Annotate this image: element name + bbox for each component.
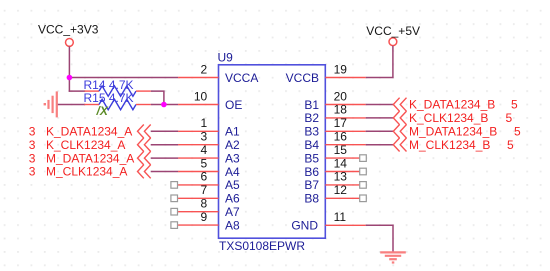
svg-text:B3: B3 (304, 125, 319, 139)
pin 6 (A5) (178, 170, 240, 193)
wire ground to R15 (58, 104, 85, 106)
svg-text:3: 3 (201, 130, 208, 144)
wire K_CLK1234_B to pin (366, 117, 394, 119)
wire from VCC_+3V3 down to R14 corner (68, 46, 70, 91)
svg-text:A8: A8 (225, 218, 240, 232)
svg-text:19: 19 (334, 62, 348, 76)
svg-text:K_DATA1234_A: K_DATA1234_A (46, 125, 132, 139)
wire K_CLK1234_A to pin (151, 144, 178, 146)
svg-text:B8: B8 (304, 192, 319, 206)
net label M_DATA1234_A (46, 151, 134, 165)
svg-text:A1: A1 (225, 125, 240, 139)
svg-text:VCCA: VCCA (225, 71, 258, 85)
svg-text:M_CLK1234_B: M_CLK1234_B (409, 138, 490, 152)
svg-text:R14 4.7K: R14 4.7K (84, 78, 134, 92)
pin 12 (B8) (304, 183, 365, 206)
value label TXS0108EPWR (219, 239, 305, 253)
svg-text:5: 5 (506, 111, 513, 125)
net label M_CLK1234_B (409, 138, 490, 152)
svg-text:3: 3 (29, 138, 36, 152)
svg-text:6: 6 (201, 170, 208, 184)
wire K_DATA1234_B to pin (366, 104, 394, 106)
ground (bottom, pin 11) (380, 252, 406, 263)
svg-text:B5: B5 (304, 151, 319, 165)
pin 16 (B4) (304, 130, 365, 153)
pin 3 (A2) (178, 130, 240, 153)
svg-text:M_CLK1234_A: M_CLK1234_A (46, 165, 127, 179)
svg-text:OE: OE (225, 98, 242, 112)
svg-text:A6: A6 (225, 192, 240, 206)
off-page connector M_DATA1234_B (393, 125, 406, 139)
wire M_DATA1234_A to pin (151, 157, 178, 159)
svg-text:2: 2 (201, 62, 208, 76)
svg-text:5: 5 (514, 125, 521, 139)
net label M_DATA1234_B (409, 125, 497, 139)
pin 2 (VCCA) (178, 62, 258, 85)
svg-text:11: 11 (334, 210, 347, 224)
no-connect A8 (171, 222, 178, 229)
svg-text:VCC_+5V: VCC_+5V (366, 24, 420, 38)
off-page connector K_DATA1234_B (393, 98, 406, 112)
ground (left, on R15) (44, 91, 57, 117)
pin 17 (B3) (304, 116, 365, 139)
resistor R14 (84, 86, 150, 96)
page ref 5 for M_DATA1234_B (514, 125, 521, 139)
no-connect A5 (171, 182, 178, 189)
svg-text:17: 17 (334, 116, 348, 130)
wire K_DATA1234_A to pin (151, 130, 178, 132)
off-page connector K_DATA1234_A (138, 125, 151, 139)
no-connect B7 (360, 182, 367, 189)
svg-text:GND: GND (291, 219, 318, 233)
off-page connector M_DATA1234_A (138, 151, 151, 165)
page ref 5 for K_CLK1234_B (506, 111, 513, 125)
svg-text:14: 14 (334, 156, 348, 170)
pin 7 (A6) (178, 183, 240, 206)
svg-text:5: 5 (201, 156, 208, 170)
off-page connector K_CLK1234_B (393, 111, 406, 125)
off-page connector K_CLK1234_A (138, 138, 151, 152)
svg-text:B7: B7 (304, 178, 319, 192)
svg-text:B2: B2 (304, 111, 319, 125)
off-page connector M_CLK1234_A (138, 165, 151, 179)
svg-text:R15 4.7K: R15 4.7K (84, 91, 134, 105)
pin 4 (A3) (178, 143, 240, 166)
svg-text:A5: A5 (225, 178, 240, 192)
svg-text:3: 3 (29, 165, 36, 179)
svg-text:VCCB: VCCB (286, 71, 319, 85)
svg-text:4: 4 (201, 143, 208, 157)
svg-text:B6: B6 (304, 165, 319, 179)
svg-text:5: 5 (511, 98, 518, 112)
svg-text:8: 8 (201, 197, 208, 211)
pin 8 (A7) (178, 197, 240, 220)
no-connect B8 (360, 195, 367, 202)
net label M_CLK1234_A (46, 165, 127, 179)
IC U9 TXS0108EPWR body (219, 65, 326, 238)
svg-text:13: 13 (334, 170, 348, 184)
svg-text:/X: /X (96, 104, 109, 118)
junction on VCC_+3V3 net (67, 75, 73, 81)
junction on OE net (161, 102, 167, 108)
svg-text:K_CLK1234_B: K_CLK1234_B (409, 111, 488, 125)
wire M_DATA1234_B to pin (366, 130, 394, 132)
svg-text:K_DATA1234_B: K_DATA1234_B (409, 98, 495, 112)
wire VCC to pin 2 VCCA (69, 77, 178, 79)
svg-text:7: 7 (201, 183, 208, 197)
net label K_CLK1234_A (46, 138, 125, 152)
svg-text:K_CLK1234_A: K_CLK1234_A (46, 138, 125, 152)
wire pin 11 GND down (366, 225, 393, 251)
svg-text:9: 9 (201, 210, 208, 224)
svg-text:10: 10 (194, 89, 208, 103)
net label VCC_+5V (366, 24, 420, 38)
svg-text:16: 16 (334, 130, 348, 144)
svg-text:A2: A2 (225, 138, 240, 152)
label R15 4.7K (84, 91, 134, 105)
svg-text:A7: A7 (225, 205, 240, 219)
svg-text:20: 20 (334, 89, 348, 103)
svg-text:18: 18 (334, 103, 348, 117)
pin 9 (A8) (178, 210, 240, 233)
no-connect A7 (171, 208, 178, 215)
pin 20 (B1) (304, 89, 365, 112)
no-connect B6 (360, 168, 367, 175)
pin 10 (OE) (178, 89, 242, 112)
off-page connector M_CLK1234_B (393, 138, 406, 152)
pin 14 (B6) (304, 156, 365, 179)
svg-text:B1: B1 (304, 98, 319, 112)
label /X (do not populate) (96, 104, 109, 118)
page ref 5 for M_CLK1234_B (507, 138, 514, 152)
page ref 3 for K_CLK1234_A (29, 138, 36, 152)
pin 11 (GND) (291, 210, 365, 233)
power symbol VCC_+3V3 (66, 39, 74, 47)
net label VCC_+3V3 (38, 23, 99, 37)
pin 5 (A4) (178, 156, 240, 179)
pin 18 (B2) (304, 103, 365, 126)
svg-text:15: 15 (334, 143, 348, 157)
pin 13 (B7) (304, 170, 365, 193)
svg-text:TXS0108EPWR: TXS0108EPWR (219, 239, 305, 253)
power symbol VCC_+5V (389, 38, 397, 46)
page ref 5 for K_DATA1234_B (511, 98, 518, 112)
page ref 3 for M_CLK1234_A (29, 165, 36, 179)
no-connect B5 (360, 155, 367, 162)
wire VCC_+5V to pin 19 VCCB (366, 46, 393, 78)
no-connect A6 (171, 195, 178, 202)
svg-text:A3: A3 (225, 151, 240, 165)
svg-text:5: 5 (507, 138, 514, 152)
page ref 3 for K_DATA1234_A (29, 125, 36, 139)
page ref 3 for M_DATA1234_A (29, 151, 36, 165)
svg-text:12: 12 (334, 183, 348, 197)
refdes U9 (218, 50, 234, 64)
pin 19 (VCCB) (286, 62, 366, 85)
pin 1 (A1) (178, 116, 240, 139)
wire R14 right down to OE net (151, 91, 164, 104)
label R14 4.7K (84, 78, 134, 92)
svg-text:3: 3 (29, 125, 36, 139)
svg-text:1: 1 (201, 116, 208, 130)
net label K_DATA1234_B (409, 98, 495, 112)
svg-text:M_DATA1234_B: M_DATA1234_B (409, 125, 497, 139)
resistor R15 (84, 99, 150, 109)
pin 15 (B5) (304, 143, 365, 166)
net label K_DATA1234_A (46, 125, 132, 139)
wire corner to R14 left (69, 90, 85, 92)
svg-text:U9: U9 (218, 50, 234, 64)
wire M_CLK1234_A to pin (151, 171, 178, 173)
svg-text:B4: B4 (304, 138, 319, 152)
net label K_CLK1234_B (409, 111, 488, 125)
svg-text:A4: A4 (225, 165, 240, 179)
wire R15 right to pin 10 OE (151, 104, 178, 106)
svg-text:3: 3 (29, 151, 36, 165)
svg-text:VCC_+3V3: VCC_+3V3 (38, 23, 99, 37)
wire M_CLK1234_B to pin (366, 144, 394, 146)
svg-text:M_DATA1234_A: M_DATA1234_A (46, 151, 134, 165)
